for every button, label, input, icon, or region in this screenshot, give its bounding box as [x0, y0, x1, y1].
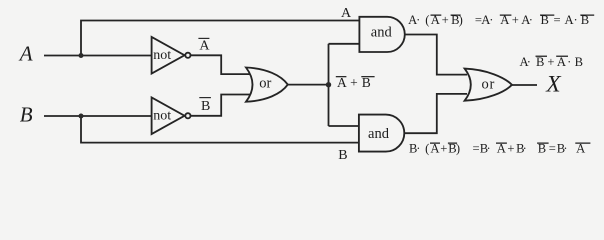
svg-text:B: B	[20, 102, 33, 126]
wire node to AND2 input 1	[329, 125, 360, 127]
overline of B-bar	[199, 97, 211, 98]
wire B bottom rail to AND2 input 2	[81, 116, 360, 143]
overline of A-bar	[198, 38, 209, 39]
svg-text:B: B	[201, 99, 210, 114]
svg-text:A: A	[18, 42, 33, 66]
svg-text:not: not	[153, 108, 171, 123]
equation overlines	[430, 15, 594, 144]
wire A input	[44, 55, 152, 57]
junction dot on B	[79, 114, 84, 119]
not gate U2 bubble	[185, 113, 190, 118]
svg-text:and: and	[371, 25, 393, 41]
junction dot on A	[79, 53, 84, 58]
wire node vertical rail	[328, 44, 330, 126]
wire AND1 output to OR2 input 1	[405, 35, 468, 75]
wire A top rail to AND1 input 1	[81, 21, 360, 56]
wire NOT1 output to OR1 input 1	[191, 55, 250, 74]
svg-text:X: X	[545, 71, 562, 97]
and gate U5 body	[359, 115, 404, 152]
svg-text:A: A	[341, 6, 352, 21]
svg-text:and: and	[368, 126, 390, 142]
not gate U2 triangle	[152, 98, 185, 135]
wire OR1 output to node	[288, 84, 329, 86]
overline of A in node label	[336, 76, 347, 77]
wire OR2 output to X	[512, 84, 537, 86]
wire AND2 output to OR2 input 2	[404, 94, 467, 133]
svg-text:or: or	[259, 76, 271, 92]
svg-text:B: B	[338, 148, 347, 163]
wire B input	[44, 115, 152, 117]
or gate U6 body	[465, 69, 512, 101]
svg-text:or: or	[482, 77, 495, 93]
svg-text:not: not	[153, 48, 171, 63]
overline of B in node label	[361, 76, 374, 77]
wire node to AND1 input 2	[329, 43, 360, 45]
svg-text:A: A	[199, 38, 210, 53]
junction dot node A-bar+B-bar	[326, 82, 331, 87]
not gate U1 bubble	[185, 53, 190, 58]
svg-text:B·(A+B)=B·A+B·B=B·A: B·(A+B)=B·A+B·B=B·A	[409, 142, 585, 156]
or gate U3 body	[246, 68, 288, 102]
not gate U1 triangle	[152, 37, 185, 74]
wire NOT2 output to OR1 input 2	[191, 95, 250, 116]
svg-text:A·B+A·B: A·B+A·B	[520, 55, 584, 69]
and gate U4 body	[359, 17, 404, 52]
